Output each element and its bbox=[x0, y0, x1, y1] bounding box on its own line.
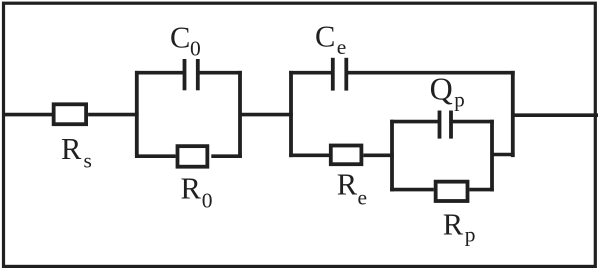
wire: sub-loop top left segment bbox=[390, 120, 439, 124]
svg-text:0: 0 bbox=[202, 189, 213, 213]
svg-text:s: s bbox=[84, 149, 92, 173]
svg-text:R: R bbox=[337, 168, 358, 202]
resistor R0 bbox=[178, 146, 208, 167]
label Rs bbox=[61, 132, 92, 173]
capacitor C0 bbox=[185, 59, 198, 90]
wire: loop2 bottom left segment bbox=[289, 154, 329, 158]
wire: loop1 bottom right segment bbox=[211, 154, 242, 158]
svg-text:e: e bbox=[337, 35, 347, 59]
wire: loop1 to loop2 bbox=[240, 113, 293, 117]
wire: exit lead bbox=[513, 113, 598, 117]
svg-text:C: C bbox=[170, 20, 190, 54]
label Rp bbox=[443, 207, 476, 246]
wire: loop2 top left segment bbox=[289, 71, 333, 75]
label C0 bbox=[170, 20, 201, 60]
svg-text:C: C bbox=[315, 20, 335, 54]
wire: sub-loop bottom left segment bbox=[390, 188, 434, 192]
svg-text:e: e bbox=[358, 186, 368, 210]
svg-text:p: p bbox=[454, 87, 465, 111]
svg-text:R: R bbox=[61, 132, 82, 166]
svg-text:p: p bbox=[465, 223, 476, 247]
wire: sub-loop left vertical bbox=[390, 120, 394, 192]
wire: loop2 top right segment bbox=[346, 71, 514, 75]
wire: sub-loop right vertical bbox=[490, 120, 494, 192]
wire: loop1 bottom left segment bbox=[135, 154, 176, 158]
capacitor Ce bbox=[333, 58, 347, 91]
resistor Rp bbox=[436, 182, 468, 201]
wire: loop1 top right segment bbox=[198, 71, 242, 75]
label Ce bbox=[315, 20, 346, 59]
wire: loop1 left vertical bbox=[135, 71, 139, 158]
label Qp bbox=[430, 70, 465, 111]
label R0 bbox=[181, 171, 213, 212]
wire: loop1 right vertical bbox=[238, 71, 242, 158]
svg-text:R: R bbox=[181, 171, 202, 205]
svg-text:R: R bbox=[443, 207, 464, 241]
svg-text:0: 0 bbox=[190, 37, 201, 61]
wire: loop1 top left segment bbox=[135, 71, 185, 75]
wire: loop2 left vertical bbox=[289, 71, 293, 157]
capacitor Qp bbox=[440, 111, 452, 139]
wire: sub-loop top right segment bbox=[451, 120, 494, 124]
label Re bbox=[337, 168, 367, 210]
wire: Re to sub-loop bbox=[363, 154, 394, 158]
wire: sub-loop bottom right segment bbox=[469, 188, 493, 192]
wire: Rs to loop1 bbox=[88, 113, 139, 117]
resistor Rs bbox=[54, 104, 86, 124]
wire: loop2 right vertical bbox=[511, 71, 515, 157]
wire: sub-loop to loop2 right vertical bbox=[492, 153, 515, 157]
resistor Re bbox=[331, 146, 362, 165]
wire: entry lead bbox=[2, 113, 53, 117]
svg-text:Q: Q bbox=[430, 70, 453, 106]
